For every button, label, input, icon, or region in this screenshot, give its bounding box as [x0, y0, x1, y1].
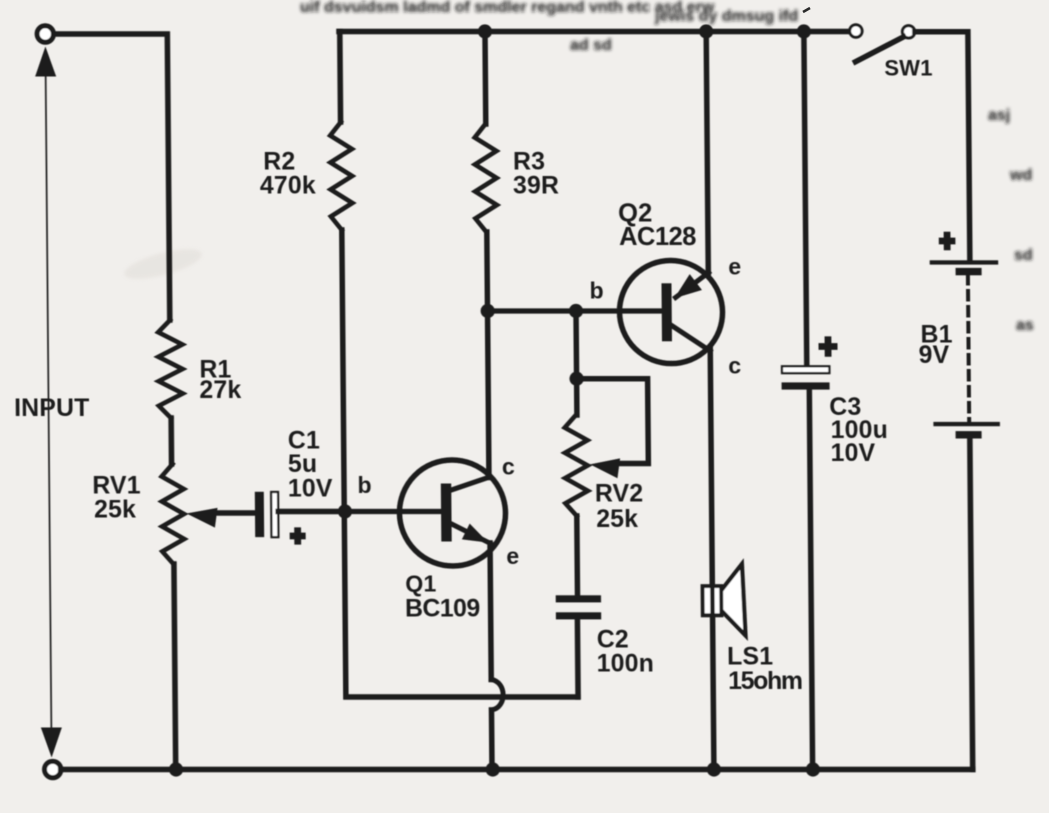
svg-text:RV2: RV2: [595, 480, 644, 507]
svg-text:LS1: LS1: [727, 643, 773, 670]
svg-text:e: e: [728, 254, 741, 280]
svg-text:5u: 5u: [288, 451, 318, 478]
svg-text:C2: C2: [597, 627, 629, 654]
svg-text:e: e: [506, 543, 519, 569]
svg-text:asj: asj: [988, 107, 1010, 124]
svg-text:AC128: AC128: [619, 223, 696, 251]
svg-text:c: c: [502, 454, 515, 480]
svg-text:27k: 27k: [199, 377, 241, 404]
svg-text:BC109: BC109: [405, 596, 480, 623]
svg-text:25k: 25k: [596, 506, 638, 533]
svg-text:uif dsvuidsm ladmd of smdler r: uif dsvuidsm ladmd of smdler regand vnth…: [300, 0, 715, 16]
svg-text:b: b: [589, 278, 603, 304]
svg-text:INPUT: INPUT: [14, 395, 90, 422]
svg-text:15ohm: 15ohm: [728, 668, 802, 695]
svg-text:25k: 25k: [94, 497, 136, 524]
svg-text:as: as: [1016, 317, 1034, 334]
svg-text:SW1: SW1: [884, 55, 932, 80]
svg-text:Q1: Q1: [405, 571, 436, 597]
svg-text:9V: 9V: [918, 342, 949, 369]
svg-text:c: c: [728, 352, 741, 378]
svg-text:jewis dy dmsug ifd: jewis dy dmsug ifd: [654, 8, 798, 25]
svg-text:b: b: [357, 472, 371, 498]
svg-text:RV1: RV1: [92, 473, 141, 500]
svg-text:100n: 100n: [597, 651, 655, 678]
svg-text:ad sd: ad sd: [570, 37, 612, 54]
svg-text:sd: sd: [1014, 247, 1033, 264]
svg-text:10V: 10V: [831, 440, 876, 467]
svg-text:470k: 470k: [260, 172, 316, 199]
svg-text:10V: 10V: [288, 475, 333, 502]
svg-text:39R: 39R: [513, 173, 559, 200]
svg-text:wd: wd: [1009, 167, 1032, 184]
